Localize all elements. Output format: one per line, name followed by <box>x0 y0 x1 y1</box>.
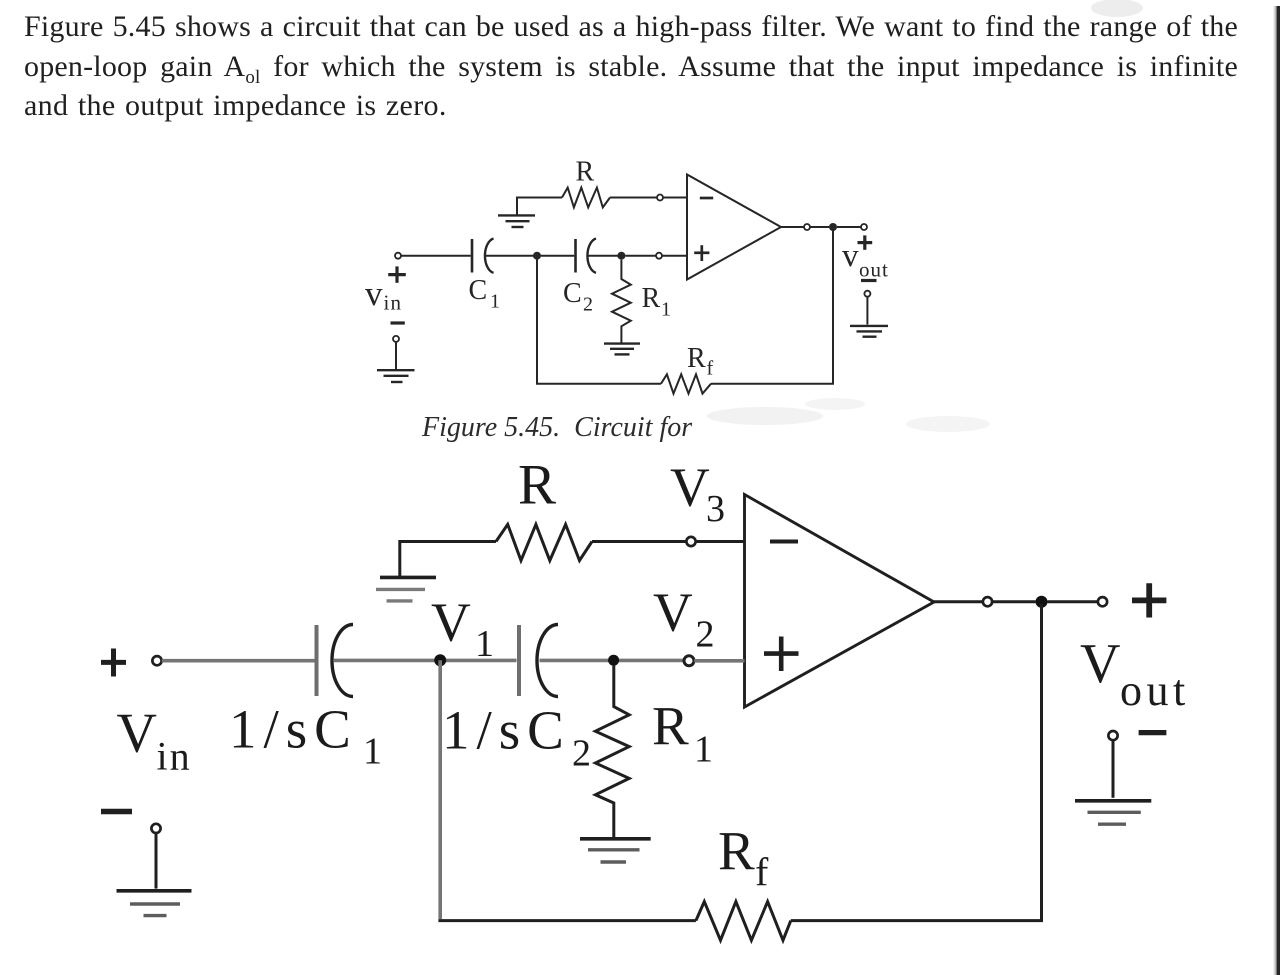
vin source minus sign (fig1) <box>391 321 405 324</box>
terminal: fig1 vin + open circle <box>395 253 401 259</box>
svg-text:v: v <box>842 238 859 274</box>
op-amp U2 (fig2) <box>745 495 935 708</box>
wire: op-amp output <box>934 600 983 603</box>
svg-text:Figure 5.45. Circuit for: Figure 5.45. Circuit for <box>421 412 692 443</box>
capacitor C2 curved plate (fig1) <box>587 239 596 273</box>
svg-text:V: V <box>653 582 693 643</box>
svg-text:in: in <box>384 291 403 315</box>
op-amp U2 minus sign <box>770 540 798 544</box>
node V1 (fig2) <box>434 654 446 666</box>
node E (fig2 output node) <box>1036 596 1048 608</box>
terminal: fig1 output open circle <box>804 224 810 230</box>
resistor R (fig2) <box>496 524 592 560</box>
wire: feedback from node A down and right <box>537 258 661 384</box>
ground G3 (fig1 under R1) <box>604 344 640 355</box>
resistor Rf (fig1) <box>661 374 711 393</box>
wire: Vin to 1/sC1 (gray) <box>162 659 315 663</box>
svg-text:2: 2 <box>572 733 591 775</box>
resistor R1 (fig1, vertical) <box>612 260 631 343</box>
ground G4 (fig1 under vout) <box>850 326 888 337</box>
svg-text:V: V <box>117 703 157 765</box>
resistor R (fig1) <box>562 188 610 208</box>
wire: vin to C1 <box>401 255 471 257</box>
terminal: fig2 Vout open circle <box>1098 597 1107 606</box>
wire: Vout to ground <box>1112 740 1115 797</box>
svg-text:out: out <box>859 258 889 282</box>
svg-text:C: C <box>469 275 488 306</box>
wire: V1 node down to feedback rail (gray) <box>438 660 442 919</box>
node B (fig1, junction C2-R1) <box>617 252 625 260</box>
svg-text:1/sC: 1/sC <box>229 699 358 760</box>
op-amp U1 minus sign <box>700 197 713 200</box>
wire: V2 terminal to op-amp + (gray) <box>694 659 744 663</box>
node D (fig2, junction C2-R1) <box>608 655 619 666</box>
svg-text:R: R <box>642 283 661 314</box>
terminal: node V3 open circle <box>686 537 695 546</box>
wire: C2 to node B <box>587 255 619 257</box>
wire: gray main line C2 to V2 terminal <box>540 659 685 663</box>
node C (fig1 output node) <box>829 223 837 231</box>
node A (fig1, junction C1-C2-feedback) <box>533 252 541 260</box>
wire: fig1 ground stub to resistor R <box>517 198 562 216</box>
Vin source minus sign (fig2) <box>101 809 132 815</box>
terminal: fig2 Vin - open circle <box>151 824 160 833</box>
svg-text:R: R <box>718 821 755 882</box>
Vin source plus sign (fig2) <box>101 649 126 677</box>
wire: node E to Vout terminal <box>1048 600 1098 603</box>
svg-text:1: 1 <box>475 623 494 665</box>
ground G8 (fig2 under Vout) <box>1075 799 1151 803</box>
svg-text:C: C <box>563 278 582 309</box>
svg-text:R: R <box>576 157 595 188</box>
svg-text:f: f <box>755 850 769 895</box>
faint scan smudge top right <box>1091 0 1143 17</box>
capacitor 1/sC1 curved plate <box>332 625 353 697</box>
svg-text:2: 2 <box>696 614 715 656</box>
vout plus sign (fig1) <box>858 235 873 249</box>
svg-text:1: 1 <box>661 299 671 321</box>
capacitor 1/sC2 curved plate <box>537 625 558 697</box>
svg-text:1: 1 <box>363 731 382 773</box>
ground G5 (fig2 top, at R input) <box>380 576 436 580</box>
svg-text:R: R <box>652 696 689 757</box>
resistor R1 (fig2, vertical) <box>595 665 629 838</box>
svg-text:R: R <box>518 454 556 517</box>
terminal: fig2 Vin + open circle <box>152 656 161 665</box>
wire: node A to C2 <box>541 255 574 257</box>
op-amp U2 plus sign <box>764 637 799 672</box>
caption erased smudges <box>707 398 990 432</box>
svg-text:2: 2 <box>583 294 593 316</box>
wire: Rf to output node <box>711 229 833 384</box>
wire: gray main line C1 to C2 through node V1 <box>334 659 517 663</box>
ground G7 (fig2 under R1) <box>580 837 651 841</box>
svg-text:R: R <box>687 343 706 374</box>
svg-text:out: out <box>1120 666 1190 715</box>
capacitor C1 curved plate (fig1) <box>485 239 494 273</box>
capacitor 1/sC1 straight plate <box>315 625 319 696</box>
vout minus sign (fig1) <box>861 279 877 282</box>
wire: Vin - to ground <box>155 833 158 888</box>
wire: R to V3 terminal <box>592 540 686 543</box>
wire: C1 to node A <box>485 255 536 257</box>
svg-text:1/sC: 1/sC <box>442 700 571 761</box>
wire: output terminal to node C <box>810 226 829 228</box>
Vout plus sign (fig2) <box>1132 583 1166 617</box>
Vout minus sign (fig2) <box>1139 730 1167 735</box>
ground G2 (fig1 under vin) <box>377 370 415 382</box>
terminal: fig1 vout ground open circle <box>864 291 870 297</box>
vin source plus sign (fig1) <box>388 266 406 282</box>
wire: node C to vout terminal <box>837 226 861 228</box>
svg-text:v: v <box>365 274 383 313</box>
wire: vout to ground <box>866 297 868 325</box>
capacitor C2 straight plate (fig1) <box>574 239 577 273</box>
svg-text:3: 3 <box>706 488 725 530</box>
wire: terminal to op-amp <box>663 197 687 199</box>
wire: vin - to ground <box>395 342 397 369</box>
op-amp U1 plus sign <box>694 245 709 261</box>
terminal: fig1 vin - open circle <box>393 336 399 342</box>
ground G6 (fig2 under Vin) <box>117 889 192 893</box>
terminal: fig2 output open circle <box>983 597 992 606</box>
capacitor 1/sC2 straight plate <box>517 625 521 696</box>
op-amp U1 (fig1) <box>687 175 781 280</box>
wire: feedback bottom left segment <box>438 919 696 922</box>
capacitor C1 straight plate (fig1) <box>471 239 474 273</box>
svg-text:V: V <box>670 457 710 518</box>
svg-text:f: f <box>707 358 714 380</box>
wire: R to inverting input terminal <box>610 197 657 199</box>
terminal: fig1 noninverting input open circle <box>656 253 662 259</box>
page right edge scan strip <box>1274 6 1280 975</box>
svg-text:1: 1 <box>490 291 500 313</box>
wire: fig2 top ground stub to resistor R <box>400 542 496 578</box>
wire: feedback right vertical from node E <box>791 604 1042 921</box>
ground G1 (fig1 top, at R input) <box>498 215 535 227</box>
svg-text:V: V <box>1080 633 1120 695</box>
terminal: fig1 inverting input open circle <box>657 195 663 201</box>
terminal: node V2 open circle <box>684 656 694 666</box>
terminal: fig1 vout open circle <box>861 224 867 230</box>
terminal: fig2 Vout ground open circle <box>1108 731 1117 740</box>
svg-text:1: 1 <box>694 729 713 771</box>
wire: terminal to op-amp + <box>662 255 687 257</box>
svg-text:V: V <box>431 592 471 653</box>
wire: output terminal to node E <box>992 600 1035 603</box>
svg-text:in: in <box>157 734 192 779</box>
resistor Rf (fig2) <box>696 902 791 941</box>
wire: V3 terminal to op-amp <box>696 540 745 543</box>
wire: node B to + input terminal <box>625 255 655 257</box>
wire: op-amp output <box>781 226 804 228</box>
